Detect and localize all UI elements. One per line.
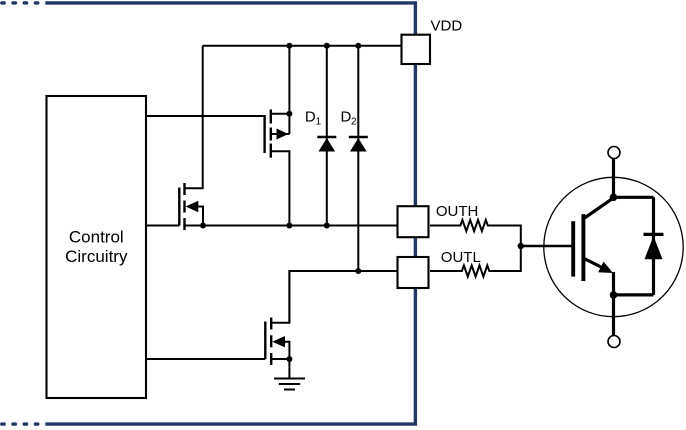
wire: M3 drain lead (271, 271, 289, 323)
node: rail dot at D2 (355, 43, 361, 49)
terminal: emitter (608, 336, 620, 348)
wire: OUTH resistor run (430, 220, 521, 246)
terminal: collector (608, 147, 620, 159)
freewheel diode triangle (645, 236, 663, 259)
wire: OUTL rail (289, 271, 397, 323)
svg-text:VDD: VDD (431, 18, 463, 35)
node: rail dot at D1 (324, 43, 330, 49)
ground (274, 379, 305, 390)
svg-text:Circuitry: Circuitry (65, 247, 128, 266)
node: M1 drain junction (286, 111, 292, 117)
node: M2 source junction (200, 223, 206, 229)
wire: M2 gate from control block (146, 225, 179, 227)
control block (47, 96, 147, 398)
IGBT body bar (581, 214, 585, 281)
svg-text:Control: Control (69, 228, 124, 247)
wire: D1 vertical (326, 46, 328, 226)
freewheel diode cathode bar (644, 233, 664, 236)
node: OUTL rail at D2 (355, 268, 361, 274)
svg-text:OUTH: OUTH (436, 203, 479, 220)
pin box VDD (402, 35, 431, 64)
IGBT collector diagonal (585, 197, 615, 218)
wire: M2 body lead (196, 207, 203, 226)
svg-text:D: D (341, 108, 352, 125)
IGBT gate bar (571, 221, 575, 276)
IC boundary solid border (45, 3, 415, 424)
wire: M1 drain up to rail (288, 46, 290, 134)
wire: collector vertical (612, 159, 615, 198)
wire: M1 drain lead (271, 113, 290, 115)
svg-text:OUTL: OUTL (441, 249, 481, 266)
node: IGBT collector dot (610, 194, 618, 202)
wire: OUTL resistor run (430, 246, 521, 277)
node: IGBT emitter dot (610, 291, 618, 299)
M1 body arrow (points right) (277, 129, 289, 140)
pin box OUTH (398, 206, 429, 237)
wire: OUTH rail (185, 225, 398, 227)
M2 body arrow (points left) (186, 201, 199, 212)
IC boundary dashed lead-in top (2, 3, 416, 424)
wire: freewheel diode vertical (652, 197, 655, 295)
node: rail dot at M1 drain column (286, 43, 292, 49)
IGBT emitter diagonal (585, 259, 602, 267)
node: OUTH rail at M1 source (286, 223, 292, 229)
IGBT outline circle (544, 177, 683, 316)
svg-text:1: 1 (316, 117, 322, 128)
node: M3 source junction (286, 356, 292, 362)
wire: M1 gate from control block (146, 115, 265, 117)
transistor M1 (PMOS top) (265, 110, 271, 158)
diode D2 (349, 136, 368, 139)
transistor M3 (NMOS bottom) (265, 318, 271, 366)
svg-text:2: 2 (351, 117, 357, 128)
pin box OUTL (398, 257, 429, 288)
wire: gate node to IGBT (521, 245, 572, 248)
wire: M1 body lead (271, 133, 290, 135)
node: OUTH rail at D1 (324, 223, 330, 229)
wire: vertical from top rail to M2 drain (185, 46, 203, 189)
wire: M3 body lead (284, 342, 289, 359)
diode D1 (317, 136, 336, 139)
wire: top VDD rail (203, 45, 401, 47)
wire: emitter to diode bottom (614, 293, 654, 296)
svg-text:D: D (305, 108, 316, 125)
node: resistor output node (518, 243, 524, 249)
wire: emitter vertical (612, 272, 615, 336)
wire: M1 source lead and down to OUTH rail (271, 151, 290, 225)
IGBT emitter arrowhead (598, 262, 613, 274)
wire: M3 source lead to ground (271, 359, 289, 378)
transistor M2 (NMOS middle) (179, 183, 184, 230)
wire: M3 gate from control block (146, 358, 265, 360)
wire: D2 vertical (357, 46, 359, 271)
wire: collector to freewheel diode (614, 196, 654, 199)
M3 body arrow (points left) (272, 336, 285, 347)
IC boundary dashed lead-in bottom (2, 422, 40, 425)
